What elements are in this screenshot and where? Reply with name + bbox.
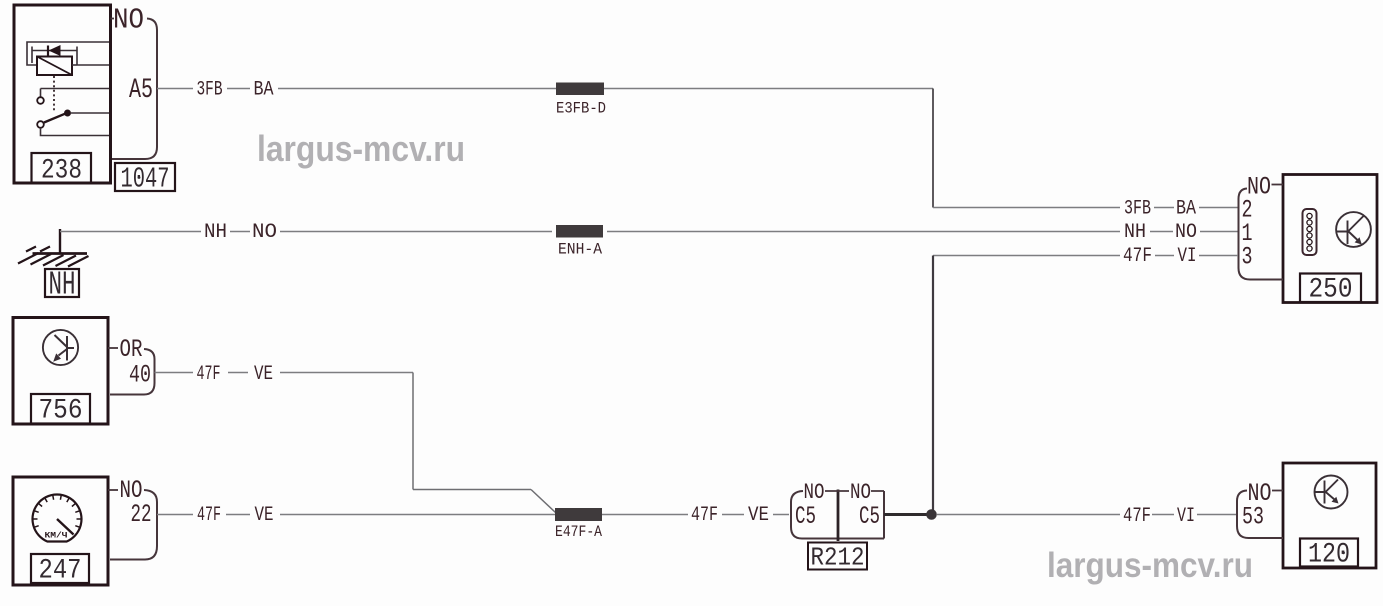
- 247 label box: [31, 554, 89, 583]
- svg-text:47F: 47F: [197, 504, 221, 527]
- component 247 box: [13, 477, 108, 585]
- wire 47F VE (pin 40): [155, 372, 414, 374]
- 756 connector bracket: [110, 349, 155, 395]
- svg-text:ENH-A: ENH-A: [558, 241, 602, 259]
- svg-text:756: 756: [39, 396, 83, 427]
- wire 47F VE (pin 22): [157, 514, 555, 516]
- 1047 label box: [115, 163, 175, 191]
- svg-text:E3FB-D: E3FB-D: [556, 100, 606, 118]
- 120 sensor symbol K: [1315, 476, 1348, 509]
- 756 pin OR: [108, 347, 118, 349]
- component 250 box: [1283, 175, 1377, 303]
- component 120 box: [1283, 463, 1376, 568]
- 250 sensor symbol K: [1336, 212, 1371, 247]
- switch arm: [44, 114, 65, 123]
- R212 label box: [808, 543, 867, 570]
- svg-text:NH: NH: [204, 221, 227, 244]
- component 756 box: [13, 318, 108, 425]
- svg-text:120: 120: [1308, 540, 1350, 571]
- svg-text:largus-mcv.ru: largus-mcv.ru: [257, 128, 465, 169]
- splice ENH-A: [556, 225, 603, 238]
- connector R212 left bracket: [791, 491, 884, 539]
- pin name NO (238): [111, 18, 115, 20]
- 120 label box: [1300, 539, 1358, 567]
- armature dotted link: [53, 76, 55, 112]
- svg-text:NH: NH: [49, 267, 76, 304]
- svg-text:22: 22: [131, 500, 152, 529]
- svg-text:VI: VI: [1177, 505, 1195, 528]
- svg-text:238: 238: [41, 156, 82, 187]
- wire corner vertical x933 upper: [932, 89, 934, 208]
- splice E3FB-D: [556, 83, 604, 96]
- svg-text:3: 3: [1242, 243, 1253, 272]
- component 238 relay box: [14, 5, 111, 183]
- connector 1047 bracket: [112, 19, 157, 160]
- svg-text:E47F-A: E47F-A: [555, 523, 602, 541]
- svg-text:NO: NO: [113, 4, 144, 37]
- wire elbow from 40 down: [413, 373, 556, 513]
- svg-text:VE: VE: [748, 504, 769, 527]
- svg-text:3FB: 3FB: [1124, 198, 1151, 221]
- svg-text:247: 247: [39, 556, 82, 587]
- thick link C5 to junction: [884, 513, 929, 516]
- svg-text:47F: 47F: [1123, 505, 1151, 528]
- svg-text:largus-mcv.ru: largus-mcv.ru: [1047, 546, 1253, 585]
- svg-text:BA: BA: [254, 79, 274, 102]
- NH ground label box: [45, 269, 79, 297]
- 247 connector bracket: [110, 490, 157, 560]
- contact terminal circle: [37, 97, 44, 104]
- svg-text:A5: A5: [129, 75, 153, 106]
- wire A5 to corner (3FB BA): [157, 88, 933, 90]
- svg-text:3FB: 3FB: [197, 79, 223, 102]
- wire junction to pin 53 (47F VI): [937, 514, 1237, 516]
- svg-text:47F: 47F: [1123, 245, 1152, 268]
- svg-text:53: 53: [1242, 503, 1264, 532]
- svg-text:VE: VE: [254, 363, 273, 386]
- svg-text:BA: BA: [1176, 198, 1196, 221]
- junction node: [926, 509, 937, 520]
- wire NH NO (ground to pin 1): [60, 231, 1238, 233]
- connector R212 mating line: [837, 490, 840, 542]
- 247 speedometer symbol: [32, 495, 81, 542]
- ground lead: [59, 229, 61, 253]
- 756 label box: [31, 394, 90, 424]
- svg-text:47F: 47F: [197, 363, 221, 386]
- vertical x933 lower: [932, 256, 934, 512]
- common pivot node: [64, 110, 71, 117]
- diode branch line: [32, 47, 109, 66]
- svg-text:КМ/Ч: КМ/Ч: [45, 532, 68, 541]
- wire 47F VI (pin 3 branch): [933, 255, 1238, 257]
- svg-text:40: 40: [129, 361, 151, 390]
- wire into pin 2 (3FB BA): [933, 207, 1238, 209]
- switch lower terminal: [37, 121, 44, 128]
- svg-text:VI: VI: [1178, 245, 1197, 268]
- 120 connector bracket: [1237, 491, 1283, 539]
- 247 pin NO: [108, 489, 118, 491]
- 756 sensor symbol: [43, 330, 78, 365]
- contact terminal wire: [41, 89, 110, 98]
- svg-text:C5: C5: [859, 502, 880, 531]
- relay coil K1: [37, 57, 72, 76]
- svg-text:NO: NO: [1175, 221, 1197, 244]
- splice E47F-A: [555, 508, 602, 521]
- wire splice to R212: [602, 514, 789, 516]
- svg-text:1047: 1047: [121, 163, 170, 196]
- svg-text:47F: 47F: [691, 504, 718, 527]
- svg-text:R212: R212: [811, 543, 865, 573]
- svg-text:C5: C5: [795, 502, 816, 531]
- svg-text:NO: NO: [252, 221, 277, 244]
- svg-text:NH: NH: [1124, 221, 1146, 244]
- 250 label box: [1300, 274, 1361, 303]
- ground hatching: [18, 247, 89, 267]
- 238 label box: [32, 153, 92, 183]
- 250 connector bracket: [1239, 189, 1284, 280]
- svg-text:250: 250: [1309, 275, 1353, 306]
- R212 NO ticks: [825, 490, 884, 492]
- relay top link wire: [27, 42, 109, 65]
- ground symbol bar: [33, 252, 88, 255]
- connector R212 right side: [883, 491, 885, 539]
- 250 coil element: [1303, 209, 1317, 255]
- svg-text:VE: VE: [255, 504, 274, 527]
- diode D: [47, 46, 49, 56]
